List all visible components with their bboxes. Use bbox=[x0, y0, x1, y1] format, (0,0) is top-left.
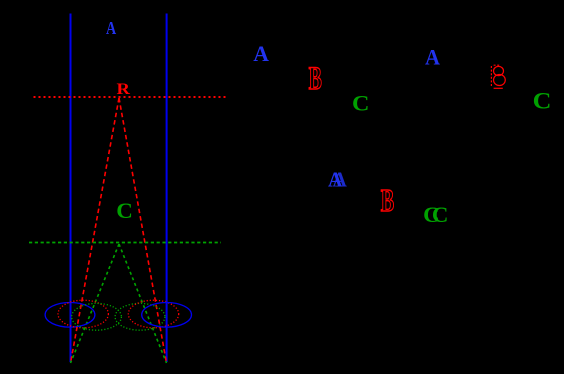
right eye green dotted ellipse bbox=[115, 303, 165, 330]
group1 letter B (red, outline blurred) bbox=[309, 59, 322, 96]
svg-text:B: B bbox=[381, 182, 395, 218]
wire right blue sight line bbox=[166, 14, 168, 363]
group2 letter B (red, outline more blurred) bbox=[491, 65, 505, 88]
svg-text:A: A bbox=[425, 45, 440, 70]
svg-text:R: R bbox=[117, 81, 132, 98]
svg-text:C: C bbox=[432, 202, 449, 227]
wire left blue sight line bbox=[70, 14, 72, 363]
svg-text:A: A bbox=[332, 168, 347, 192]
svg-text:B: B bbox=[309, 59, 322, 96]
wire red ray to right eye bbox=[119, 98, 167, 363]
svg-text:C: C bbox=[116, 198, 133, 223]
wire red ray to left eye bbox=[71, 98, 120, 363]
svg-text:A: A bbox=[106, 18, 116, 38]
group3 letter B (red, outline) bbox=[381, 182, 395, 218]
left eye red dotted ellipse bbox=[58, 300, 108, 328]
wire green dashed horizontal line bbox=[29, 242, 221, 244]
wire red dotted horizontal line bbox=[34, 96, 228, 98]
wire green ray to left eye bbox=[71, 244, 120, 363]
right eye red dotted ellipse bbox=[128, 300, 178, 328]
svg-text:C: C bbox=[533, 88, 552, 113]
svg-text:A: A bbox=[253, 41, 269, 66]
left eye green dotted ellipse bbox=[72, 303, 122, 330]
wire green ray to right eye bbox=[119, 244, 167, 363]
left eye blue ellipse bbox=[45, 303, 95, 328]
svg-text:C: C bbox=[352, 92, 369, 116]
right eye blue ellipse bbox=[142, 303, 192, 328]
